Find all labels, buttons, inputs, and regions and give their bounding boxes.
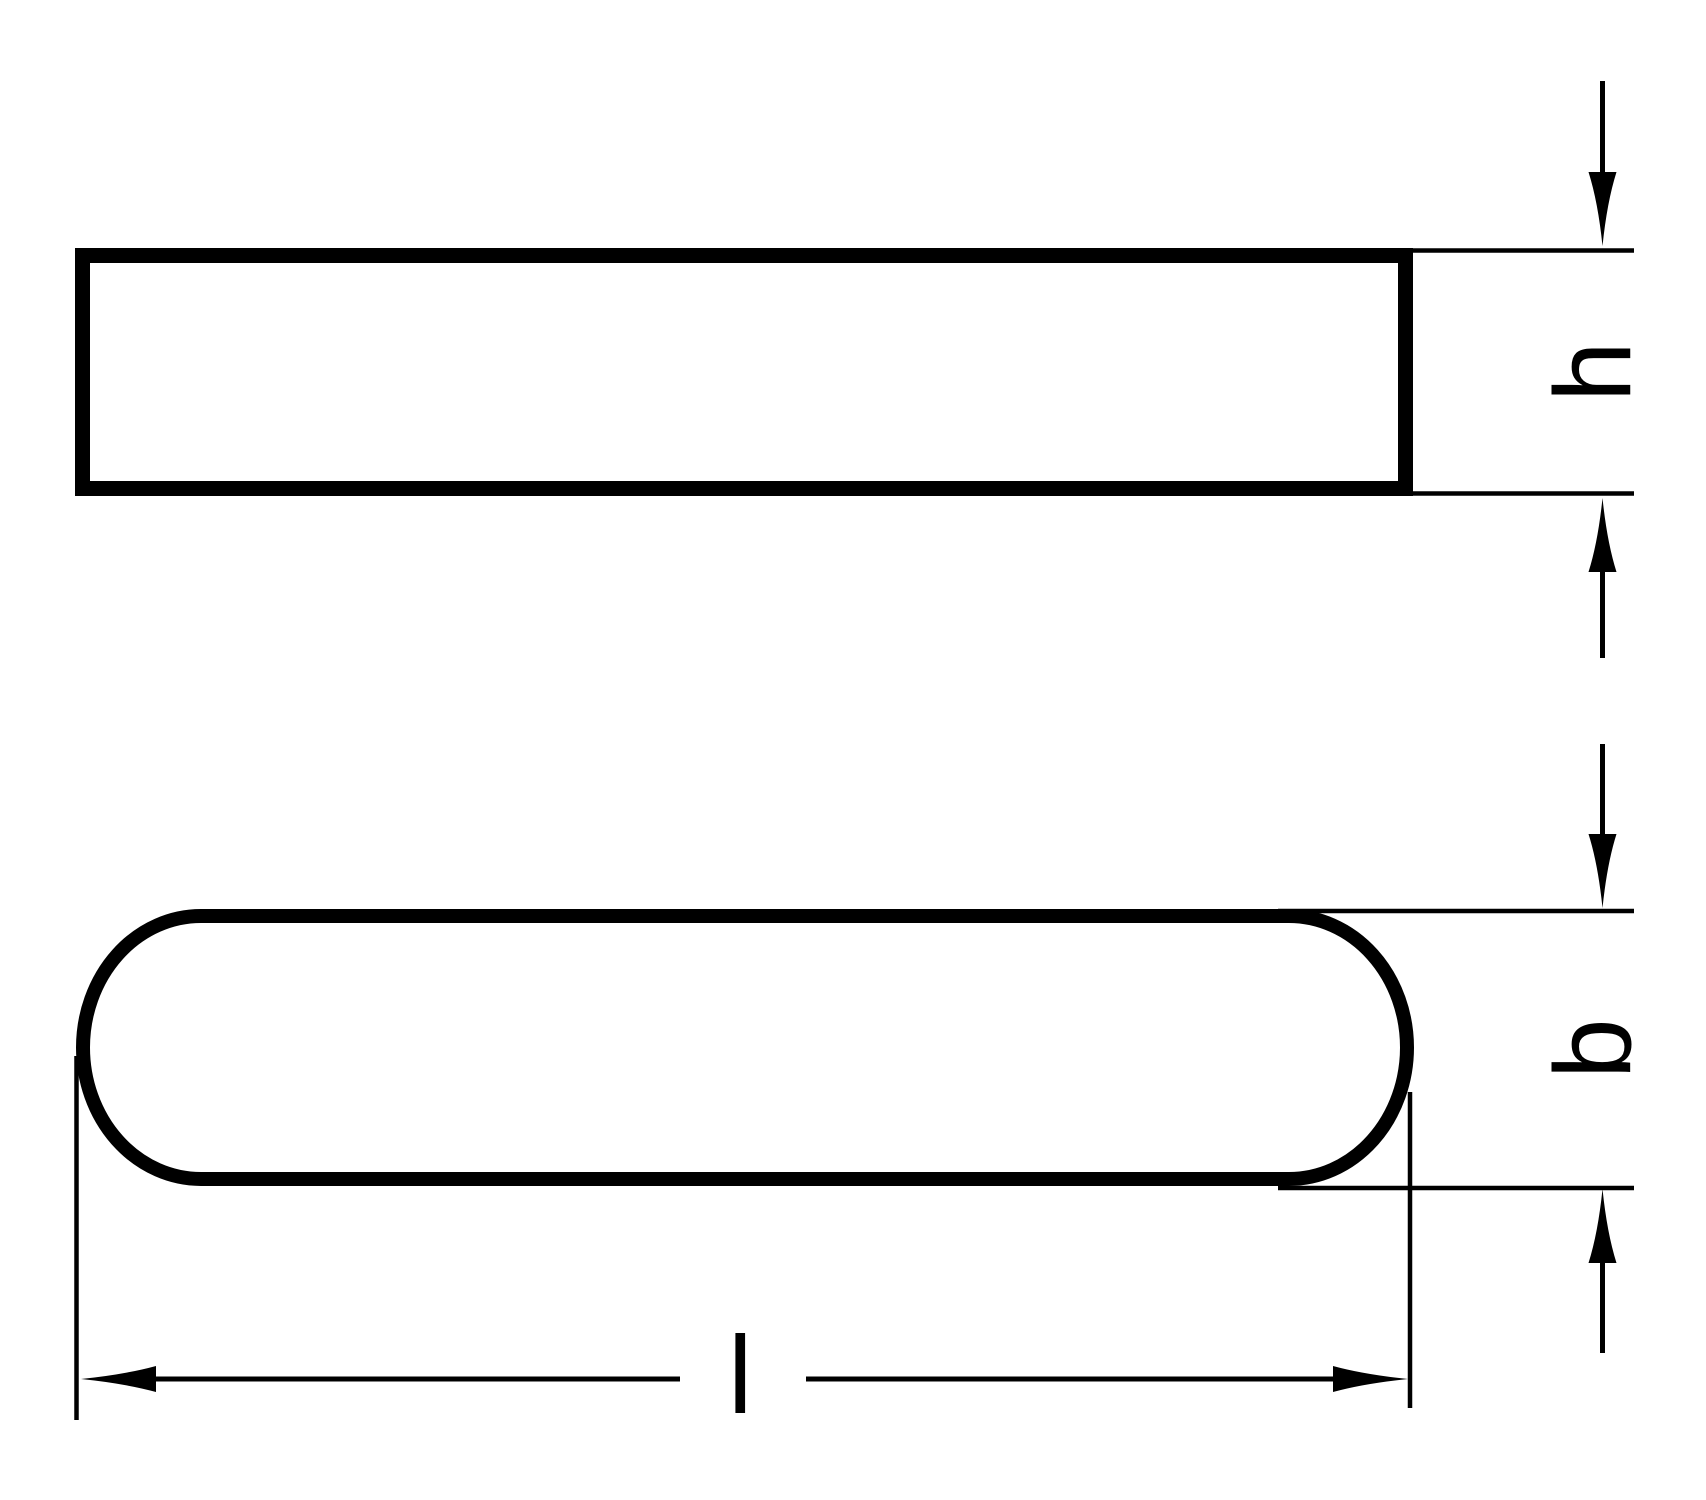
extension line l right <box>1408 1092 1413 1408</box>
extension line h top <box>1406 248 1634 253</box>
arrow left to l left <box>81 1366 156 1392</box>
arrow right to l right <box>1333 1366 1408 1392</box>
gap dimension tail upper <box>1600 744 1605 836</box>
key side view (top rectangle) <box>83 256 1406 489</box>
dimension l line left segment <box>154 1377 680 1382</box>
arrow down to b top <box>1589 834 1617 908</box>
dimension h upper tail <box>1600 81 1605 178</box>
key top view (stadium / pill shape) <box>83 916 1407 1179</box>
extension line l left <box>74 1056 79 1420</box>
extension line h bottom <box>1406 491 1634 496</box>
dimension l line right segment <box>806 1377 1337 1382</box>
dimension b lower tail <box>1600 1261 1605 1353</box>
svg-text:b: b <box>1532 1018 1654 1079</box>
arrow up to h bottom <box>1589 498 1617 572</box>
arrow up to b bottom <box>1589 1189 1617 1263</box>
arrow down to h top <box>1589 172 1617 246</box>
svg-text:l: l <box>728 1314 752 1437</box>
dimension h lower tail <box>1600 570 1605 658</box>
extension line b top <box>1278 909 1634 914</box>
svg-text:h: h <box>1532 341 1654 402</box>
extension line b bottom <box>1278 1186 1634 1191</box>
